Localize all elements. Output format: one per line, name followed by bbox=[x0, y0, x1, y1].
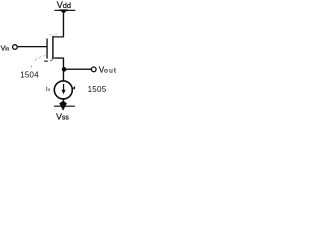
faint print smudges near drain bbox=[49, 34, 57, 36]
background bbox=[0, 0, 118, 120]
wire current source to VSS bbox=[63, 99, 64, 104]
transistor M1 (NMOS) bbox=[46, 36, 64, 58]
svg-text:Vdd: Vdd bbox=[57, 0, 71, 10]
power rail VDD symbol (bar + up arrowhead) bbox=[54, 9, 75, 14]
current source I1 circle bbox=[54, 81, 72, 99]
annotation small slash b bbox=[53, 58, 54, 59]
current source arrow bbox=[61, 84, 65, 94]
wire to Vout bbox=[64, 69, 91, 70]
annotation leader dashes to transistor bbox=[31, 55, 45, 68]
svg-text:Vout: Vout bbox=[99, 66, 117, 75]
channel bar bbox=[52, 36, 53, 58]
wire gate bbox=[17, 46, 46, 47]
wire VDD to drain bbox=[63, 14, 64, 37]
terminal Vout circle bbox=[91, 67, 96, 72]
annotation small slash bbox=[50, 59, 52, 61]
annotation chevron at current source bbox=[72, 86, 75, 90]
svg-text:1505: 1505 bbox=[88, 85, 107, 94]
svg-text:Io: Io bbox=[46, 86, 51, 93]
wire source down bbox=[63, 59, 64, 82]
svg-text:Vin: Vin bbox=[1, 46, 10, 53]
junction dot output node bbox=[62, 67, 67, 72]
gate bar bbox=[46, 39, 47, 59]
source lead bbox=[52, 57, 64, 58]
terminal Vin circle bbox=[13, 45, 18, 50]
drain lead bbox=[52, 36, 64, 37]
svg-text:1504: 1504 bbox=[20, 70, 39, 79]
annotation tick near gate bbox=[44, 61, 48, 62]
power rail VSS symbol (down arrowhead + bar) bbox=[54, 101, 75, 111]
